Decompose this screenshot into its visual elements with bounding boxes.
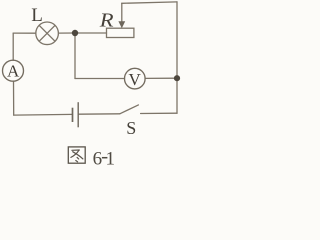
wire switch to bottom-right corner xyxy=(141,112,177,114)
wire node A vertical drop xyxy=(74,33,76,79)
wire lamp to node A xyxy=(59,32,76,34)
wire top horizontal xyxy=(122,2,177,3)
wire to voltmeter left xyxy=(75,78,125,80)
rheostat wiper arrowhead xyxy=(118,21,125,28)
wire right vertical xyxy=(176,2,178,113)
wire ammeter bottom lead xyxy=(13,81,15,115)
svg-text:V: V xyxy=(129,70,142,89)
battery negative plate (short) xyxy=(72,108,74,122)
wire battery to switch xyxy=(78,113,120,115)
node A junction dot xyxy=(72,30,78,36)
wire node A to rheostat xyxy=(75,32,107,34)
svg-text:S: S xyxy=(126,118,136,138)
node B junction dot xyxy=(174,75,180,81)
svg-text:R: R xyxy=(99,9,114,31)
wire voltmeter to node B xyxy=(145,77,177,79)
lamp L (circle with X) xyxy=(36,22,59,45)
voltmeter V1 xyxy=(125,68,146,89)
svg-text:1: 1 xyxy=(106,149,116,170)
ammeter A1 xyxy=(3,60,24,81)
wire bottom-left to battery xyxy=(14,113,73,116)
wire wiper riser xyxy=(121,3,123,22)
wire ammeter top lead xyxy=(12,33,14,60)
wire top-left horizontal xyxy=(13,32,36,34)
switch S blade xyxy=(120,105,139,114)
rheostat R body xyxy=(107,28,134,37)
svg-text:6: 6 xyxy=(93,149,103,170)
svg-text:L: L xyxy=(31,5,43,26)
caption character 图 (hand-drawn) xyxy=(68,147,85,163)
svg-text:A: A xyxy=(7,61,20,80)
battery positive plate (long) xyxy=(77,102,79,127)
caption dash xyxy=(102,157,108,159)
